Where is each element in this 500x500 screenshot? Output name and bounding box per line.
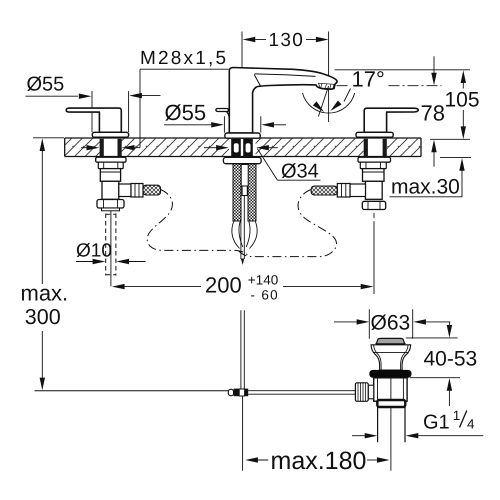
right handle centerline [373,213,375,294]
right valve hex nut [360,162,386,168]
counter bottom extension line right [440,157,471,159]
left flexible hose loop [147,190,249,257]
right valve hose connector block [350,184,366,197]
right valve hose ferrule [337,184,350,198]
dimension Ø34 label and leader [257,149,320,183]
right handle shank in counter [364,139,387,157]
pop-up rod vertical link [241,310,244,388]
svg-text:- 60: - 60 [251,288,279,303]
dimension Ø55 left: extension lines [92,91,129,132]
svg-text:1: 1 [453,408,461,423]
dimension Ø63: arrows and label [334,312,450,335]
svg-text:4: 4 [467,417,475,432]
drain plug cap [376,338,405,344]
svg-text:130: 130 [269,30,305,51]
drain centerline [390,378,392,471]
dimension 200 +140 -60 [112,272,374,302]
dimension max.180 [245,447,389,475]
svg-text:Ø63: Ø63 [371,312,411,335]
spout inner top line [255,74,316,77]
svg-text:105: 105 [445,89,480,112]
drain funnel flange [371,345,411,370]
svg-text:max.: max. [21,280,69,305]
dimension 40-53 [424,322,478,406]
spout shank blocks in counter [231,139,253,156]
angle 17 degrees: arrowheads [328,100,341,113]
spout threaded shank columns [233,164,256,221]
svg-text:max.30: max.30 [391,176,460,199]
drain knurled knob [355,383,368,402]
svg-text:max.180: max.180 [271,447,367,475]
dimension G1 1/4 [352,408,483,439]
svg-text:G1: G1 [423,412,450,434]
countertop slab [65,138,421,157]
left valve hex nut [98,162,123,168]
horizontal rod to drain [248,391,355,395]
right valve bottom nut [362,201,385,209]
drain knob stem [368,385,374,399]
hose stubs below shank [232,221,257,249]
left handle shank in counter [100,139,122,157]
rod coupling [228,389,248,397]
dimension Ø10 label and arrows [76,241,146,265]
dimension 78 [421,56,445,166]
dimension M28 arrows at counter hole [81,145,140,150]
spout mounting flange under counter [223,157,261,163]
angle 17 degrees: leader and label [344,89,351,102]
angle 17 degrees: vertex lines [318,86,328,117]
drain bottom coupling [377,400,405,407]
left valve hose ferrule [131,184,143,198]
svg-text:+140: +140 [248,272,278,287]
left valve braided hose [143,185,161,195]
dimension Ø55 center: extension lines [224,116,260,132]
dimension 130 [243,30,329,122]
dimension max.30 [390,158,465,198]
right handle lever [364,108,418,132]
spout outlet dash-dot axis [337,85,442,87]
dimension max. 300 [21,138,69,390]
extension below rod coupling [242,396,244,471]
dimension Ø55 center: label, leader, arrows [164,100,286,128]
dimension 40-53: extension lines [406,338,460,378]
left valve flange nut [96,157,126,162]
center unit centerline [241,32,243,138]
spout top extension line [335,69,470,71]
right valve flange nut [358,157,391,162]
dimension M28x1,5: leader [140,69,229,148]
left handle centerline [110,211,112,286]
svg-text:78: 78 [421,101,445,126]
drain body [374,378,407,401]
spout aerator mouth [319,83,335,89]
svg-text:200: 200 [205,273,242,298]
spout transition diagonal [254,75,261,88]
left handle lever [66,108,121,132]
left valve body [100,169,120,200]
svg-text:Ø55: Ø55 [165,100,207,125]
right valve braided hose [311,186,337,195]
angle 17 degrees: arc [303,93,355,113]
pull rod [241,196,244,260]
spout body [229,68,337,134]
spout base plate [225,133,260,138]
pop-up rod knob on spout [216,109,229,118]
dimension 105 [445,70,480,139]
svg-text:M28x1,5: M28x1,5 [140,48,228,69]
dimension Ø34 arrows [204,145,278,150]
dimension Ø55 left: leader and arrows [26,93,161,99]
svg-text:Ø10: Ø10 [76,241,112,262]
svg-text:Ø55: Ø55 [27,74,65,96]
drain seal ring [369,370,411,378]
countertop hatching [65,139,421,156]
Ø10 dashed hole outline [106,214,116,276]
counter top extension line right [430,138,470,140]
left handle escutcheon [92,132,128,137]
svg-text:40-53: 40-53 [424,348,478,371]
svg-text:300: 300 [25,305,61,329]
drain tailpipe [378,407,405,442]
left valve hose connector block [119,184,131,197]
left valve bottom nut [97,200,124,211]
pull rod tip [241,259,244,266]
right valve body [363,169,385,200]
dimension Ø63: extension lines [369,309,412,339]
right handle escutcheon [356,132,393,137]
right flexible hose loop [238,190,336,257]
bottom reference line [35,390,229,392]
svg-text:Ø34: Ø34 [281,161,319,183]
